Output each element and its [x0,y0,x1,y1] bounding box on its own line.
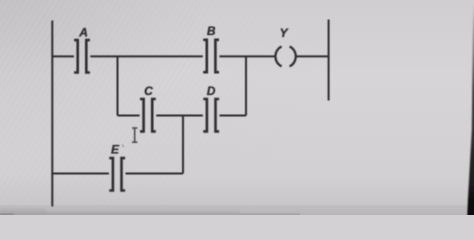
svg-text:C: C [144,84,153,98]
svg-text:D: D [207,84,216,98]
svg-text:B: B [207,24,216,38]
svg-text:A: A [78,26,88,40]
svg-text:Y: Y [280,26,289,40]
svg-text:E: E [111,143,120,157]
